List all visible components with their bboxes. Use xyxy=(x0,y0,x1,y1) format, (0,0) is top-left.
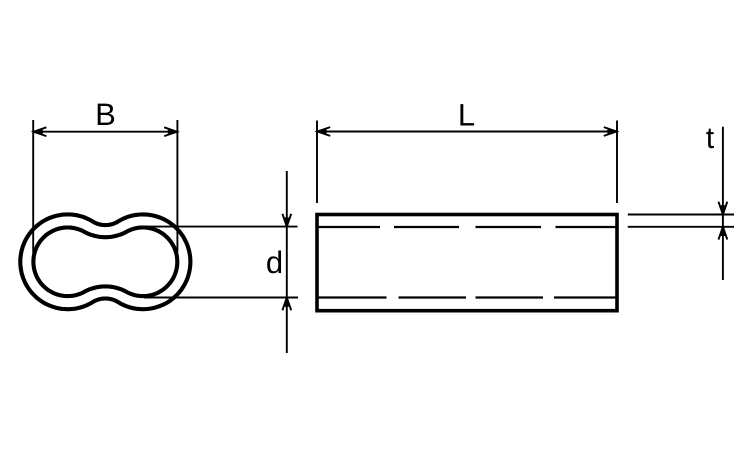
dimension t extension line top xyxy=(628,214,734,216)
label t xyxy=(706,129,714,149)
dimension d line xyxy=(286,171,288,353)
dimension B extension line right xyxy=(176,120,178,252)
dimension B arrow left xyxy=(34,127,47,136)
dimension L arrow left xyxy=(317,127,330,136)
inner contour (bore) of figure-8 sleeve cross-section xyxy=(33,228,177,297)
dimension d arrow bottom xyxy=(282,298,291,311)
dimension L arrow right xyxy=(604,127,617,136)
label L xyxy=(460,104,474,125)
dimension t arrow top xyxy=(719,202,728,215)
dimension B line xyxy=(33,131,177,133)
dimension t line xyxy=(722,127,724,280)
dimension t extension line bottom xyxy=(628,226,734,228)
label d xyxy=(267,251,281,274)
dimension L extension line right xyxy=(616,121,618,204)
outer contour of figure-8 sleeve cross-section xyxy=(20,214,190,309)
hidden bore line bottom (dashed) xyxy=(317,296,617,298)
sleeve side view rectangle xyxy=(317,215,617,311)
hidden bore line top (dashed) xyxy=(317,226,617,228)
dimension d arrow top xyxy=(282,214,291,227)
label B xyxy=(98,104,115,125)
dimension B arrow right xyxy=(164,127,177,136)
dimension L line xyxy=(317,131,617,133)
dimension L extension line left xyxy=(316,121,318,204)
dimension B extension line left xyxy=(32,120,34,253)
dimension d extension line top xyxy=(140,226,298,228)
dimension t arrow bottom xyxy=(719,227,728,240)
dimension d extension line bottom xyxy=(144,297,298,299)
